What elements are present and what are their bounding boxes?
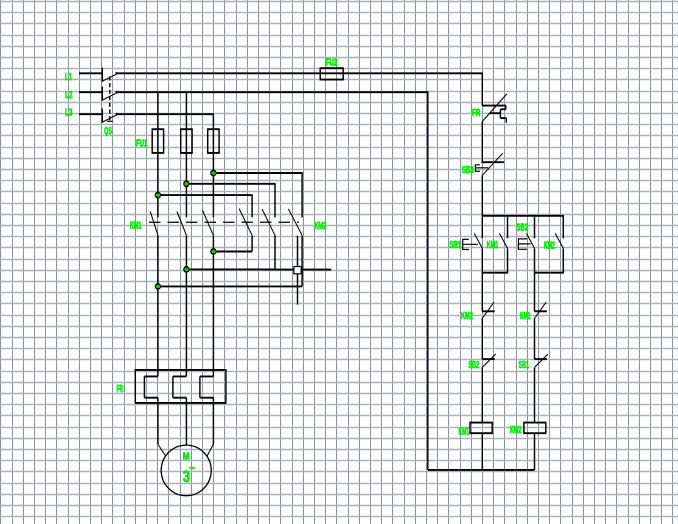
button SB1 NC blade: [535, 354, 548, 367]
contactor KM2 main pole 3: [288, 209, 302, 235]
switch QS pole 2 blade: [115, 91, 117, 94]
contactor KM2 main pole 1: [239, 209, 252, 236]
wire L2 feed: [79, 91, 103, 93]
contactor linkage dashed: [149, 221, 299, 223]
wire SB1 NC to coil KM2: [534, 367, 536, 422]
contactor KM1 main pole 3: [203, 210, 214, 235]
svg-text:KM1: KM1: [487, 240, 499, 251]
wire motor lead U: [157, 398, 159, 444]
contactor KM1 main pole 2: [177, 212, 186, 236]
svg-text:SB2: SB2: [516, 222, 528, 233]
wire branch to KM2 pole2: [186, 183, 275, 185]
wire fuse3 to KM1 pole3: [212, 129, 214, 217]
wire branch to KM2 pole1: [158, 194, 253, 196]
wire motor lead W: [212, 398, 214, 444]
button SB2 blade: [526, 233, 534, 248]
contact KM2 interlock seat: [482, 310, 494, 312]
button SB1 NC seat: [535, 358, 548, 360]
wire KM2 pole2 return: [186, 268, 275, 270]
thermal relay FR box: [135, 370, 227, 403]
svg-text:FU2: FU2: [326, 58, 338, 69]
thermal relay FR heater 3: [200, 376, 214, 397]
contact KM1 interlock seat: [535, 310, 547, 312]
wire coil KM2 to bottom: [534, 433, 536, 470]
button SB1 actuator: [463, 239, 478, 250]
contact KM2 aux upper wire: [562, 216, 564, 239]
wire dropper phase B: [185, 92, 187, 129]
svg-text:KM2: KM2: [461, 311, 473, 322]
wire KM1 aux lower: [507, 249, 509, 273]
motor M circle: [161, 445, 211, 496]
wire coil KM1 to bottom: [481, 433, 483, 470]
contactor KM2 main pole 2: [262, 209, 275, 235]
wire fuse1 to KM1 pole1: [157, 129, 159, 217]
thermal relay FR heater 1: [144, 376, 158, 397]
button SB1 blade: [474, 233, 482, 248]
wire fuse2 to KM1 pole2: [185, 129, 187, 217]
svg-text:SB1: SB1: [519, 360, 530, 371]
button SB1 upper wire: [481, 216, 483, 239]
svg-text:KM1: KM1: [520, 311, 531, 322]
wire SB1 to KM2 interlock: [481, 249, 483, 312]
button SB2 actuator: [518, 238, 530, 249]
thermal relay FR heater 2: [173, 376, 187, 397]
wire FR contact to SB3: [481, 122, 483, 163]
wire KM1 pole1 to FR heater1: [157, 235, 159, 376]
svg-text:M: M: [183, 452, 190, 463]
switch QS pole 3 contact: [101, 109, 103, 122]
contact KM1 aux upper wire: [507, 216, 509, 239]
wire L3 bus: [116, 113, 214, 115]
svg-text:KM2: KM2: [314, 221, 326, 232]
wire L2 bus and return rail: [116, 92, 534, 470]
svg-text:L1: L1: [65, 72, 72, 83]
fuse FU1-1: [152, 129, 165, 153]
wire KM2 pole3 return: [158, 285, 302, 287]
wire motor lead V: [185, 398, 187, 446]
wire L1 bus to control: [116, 72, 483, 74]
wire KM2 pole1 return: [213, 251, 252, 253]
node junction B: [183, 180, 189, 187]
svg-text:KM1: KM1: [130, 221, 142, 232]
contact KM2 aux blade: [555, 233, 563, 248]
wire KM1 pole2 to FR heater2: [185, 235, 187, 376]
svg-text:FR: FR: [472, 108, 481, 119]
contact KM2 interlock blade: [483, 302, 494, 317]
thermal contact FR hook: [490, 109, 507, 118]
wire L1 feed: [79, 72, 103, 74]
button SB2 NC blade: [482, 354, 495, 367]
switch QS pole 1 blade: [115, 72, 117, 75]
node junction C: [155, 192, 161, 199]
node junction D: [210, 248, 216, 255]
wire dropper phase A: [157, 92, 159, 129]
button SB2 upper wire: [534, 216, 536, 239]
button SB3 actuator: [475, 164, 488, 172]
svg-text:L2: L2: [65, 90, 73, 101]
svg-text:L3: L3: [65, 108, 73, 119]
cursor crosshair: [264, 269, 332, 271]
node junction F: [155, 283, 161, 290]
svg-text:KM1: KM1: [459, 427, 470, 438]
svg-text:KM2: KM2: [544, 240, 555, 251]
contactor KM1 main pole 1: [150, 211, 158, 235]
wire SB3 to node: [481, 176, 483, 216]
svg-text:KM2: KM2: [510, 425, 522, 436]
thermal contact FR seat: [482, 105, 506, 107]
button SB3 seat: [481, 161, 504, 163]
wire SB2 NC to coil KM1: [481, 367, 483, 422]
svg-text:SB2: SB2: [468, 360, 479, 371]
svg-text:SB3: SB3: [462, 165, 474, 176]
switch QS pole 2 contact: [101, 87, 103, 100]
wire KM1 interlock lower: [534, 318, 536, 360]
wire KM2 interlock lower: [481, 318, 483, 360]
wire branch bottom bar 1: [482, 272, 508, 274]
switch QS pole 1 contact: [101, 68, 103, 81]
svg-text:~: ~: [189, 463, 195, 474]
button SB2 NC seat: [482, 358, 495, 360]
wire KM1 pole3 to FR heater3: [212, 235, 214, 376]
thermal contact FR blade: [482, 94, 507, 122]
wire branch to KM2 pole3: [213, 172, 302, 174]
svg-text:FR: FR: [117, 384, 124, 395]
wire KM2 aux lower: [562, 249, 564, 273]
button SB3 blade: [482, 153, 503, 176]
wire SB2 to KM1 interlock: [534, 249, 536, 312]
coil KM2: [523, 423, 546, 434]
contact KM1 interlock blade: [535, 302, 546, 317]
fuse FU1-3: [207, 129, 220, 153]
node junction E: [183, 266, 189, 273]
contact KM1 aux blade: [499, 233, 507, 248]
switch QS pole 3 blade: [115, 113, 117, 116]
switch QS mechanical link: [109, 77, 111, 122]
svg-text:QS: QS: [104, 126, 112, 137]
svg-text:FU1: FU1: [136, 139, 148, 150]
coil KM1: [469, 423, 492, 434]
wire branch bottom bar 2: [535, 272, 564, 274]
wire L3 feed: [79, 113, 103, 115]
svg-text:SB1: SB1: [449, 240, 461, 251]
wire branch top bar: [482, 215, 564, 217]
fuse FU1-2: [180, 129, 193, 153]
fuse FU2: [320, 68, 344, 79]
node junction A: [210, 170, 216, 177]
